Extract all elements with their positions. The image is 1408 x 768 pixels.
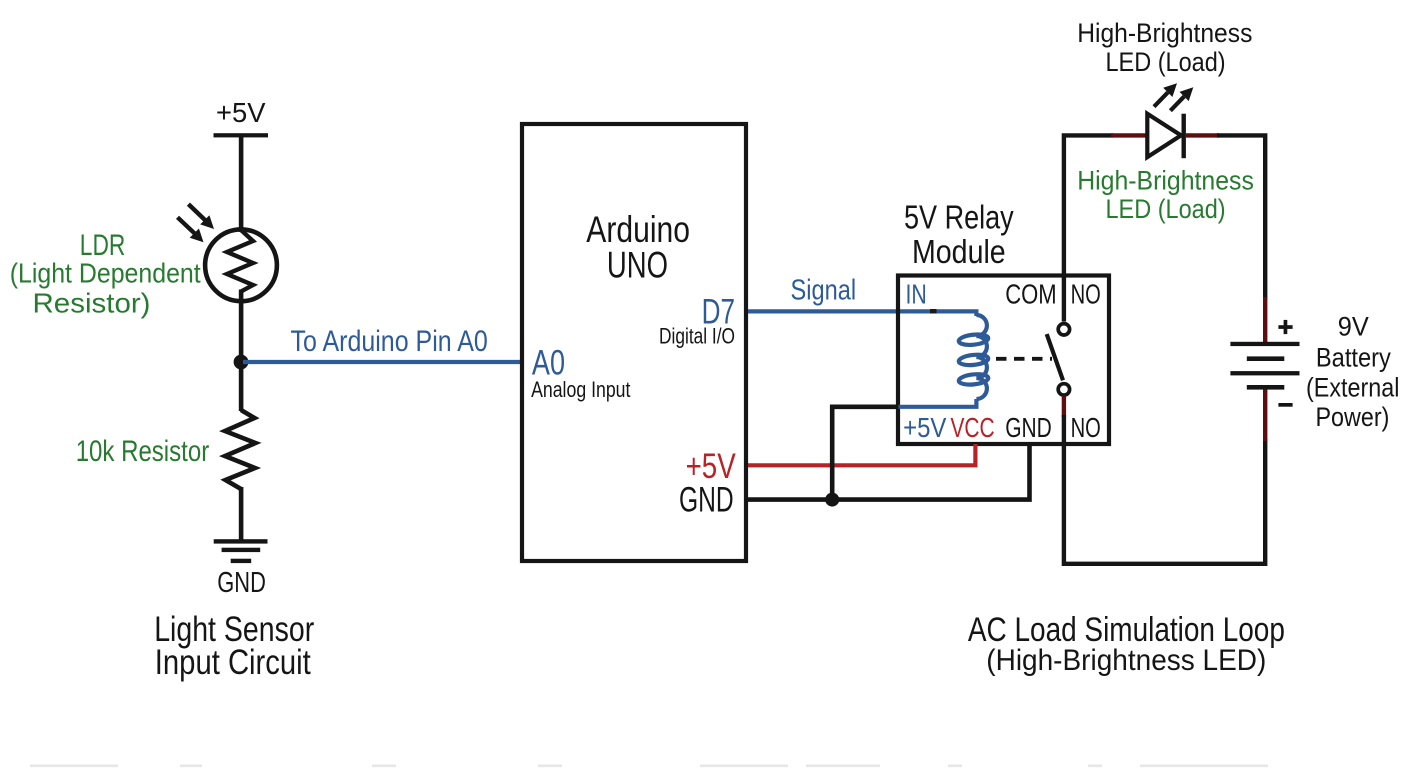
svg-text:Battery: Battery bbox=[1316, 343, 1391, 373]
label High-Brightness LED (Load) green bbox=[1077, 166, 1254, 224]
relay module box K1 bbox=[898, 276, 1109, 445]
svg-text:AC Load Simulation Loop: AC Load Simulation Loop bbox=[968, 611, 1285, 649]
battery + mark bbox=[1278, 320, 1292, 334]
wire to Arduino pin A0 (blue) bbox=[243, 360, 521, 364]
red wire VCC to +5V bbox=[748, 444, 975, 465]
svg-text:LED (Load): LED (Load) bbox=[1106, 194, 1226, 224]
maroon segment above battery bbox=[1263, 297, 1267, 342]
svg-text:(External: (External bbox=[1306, 373, 1399, 403]
svg-text:GND: GND bbox=[217, 567, 266, 599]
svg-text:Input Circuit: Input Circuit bbox=[155, 643, 311, 682]
label Arduino UNO bbox=[586, 209, 690, 286]
junction node A0 tap bbox=[234, 355, 249, 370]
LDR zigzag bbox=[227, 230, 253, 292]
svg-text:Digital I/O: Digital I/O bbox=[659, 324, 735, 349]
wire +5V to LDR bbox=[239, 135, 244, 232]
svg-text:COM: COM bbox=[1005, 279, 1056, 310]
maroon segment LED right bbox=[1186, 133, 1219, 137]
title Light Sensor Input Circuit bbox=[154, 610, 314, 682]
svg-text:UNO: UNO bbox=[607, 244, 668, 285]
svg-text:NO: NO bbox=[1071, 279, 1101, 310]
svg-text:NO: NO bbox=[1071, 412, 1101, 443]
wire D7 signal (blue) bbox=[748, 311, 976, 316]
LED emission arrow 1 bbox=[1154, 83, 1177, 107]
wire resistor to ground bbox=[239, 487, 244, 543]
faint cut-off caption at bottom bbox=[30, 765, 1268, 768]
tick on signal wire bbox=[930, 309, 937, 314]
svg-text:To Arduino Pin A0: To Arduino Pin A0 bbox=[291, 325, 488, 358]
LDR R1 circle bbox=[205, 229, 277, 301]
label High-Brightness LED (Load) black bbox=[1077, 18, 1252, 77]
title 5V Relay Module bbox=[904, 199, 1014, 271]
svg-text:LED (Load): LED (Load) bbox=[1106, 47, 1226, 77]
wire LED to battery top bbox=[1217, 135, 1265, 299]
svg-text:VCC: VCC bbox=[951, 412, 995, 443]
wire junction up to relay +5V bbox=[832, 407, 898, 500]
wire LDR to junction and resistor bbox=[239, 290, 244, 412]
relay coil L1 (blue) bbox=[899, 315, 989, 407]
svg-text:Signal: Signal bbox=[791, 274, 857, 306]
svg-text:Power): Power) bbox=[1316, 402, 1390, 432]
svg-text:9V: 9V bbox=[1338, 312, 1369, 342]
svg-text:IN: IN bbox=[906, 279, 927, 310]
switch arm bbox=[1047, 334, 1063, 380]
LED emission arrow 2 bbox=[1170, 87, 1193, 110]
label 9V Battery (External Power) bbox=[1306, 312, 1399, 432]
svg-text:Analog Input: Analog Input bbox=[531, 377, 630, 402]
LED cathode bar bbox=[1182, 114, 1186, 159]
svg-text:Resistor): Resistor) bbox=[33, 288, 151, 319]
svg-text:+5V: +5V bbox=[216, 97, 266, 128]
maroon segment LED left bbox=[1111, 133, 1147, 137]
resistor R2 10k zigzag bbox=[225, 410, 256, 489]
Arduino UNO box U1 bbox=[522, 124, 746, 561]
svg-text:(Light Dependent: (Light Dependent bbox=[10, 258, 201, 289]
junction GND dot bbox=[825, 493, 839, 507]
svg-text:High-Brightness: High-Brightness bbox=[1077, 18, 1252, 48]
+5V supply bar bbox=[214, 133, 269, 137]
svg-text:10k Resistor: 10k Resistor bbox=[76, 435, 210, 468]
svg-text:High-Brightness: High-Brightness bbox=[1077, 166, 1254, 196]
contact NO circle bbox=[1058, 384, 1069, 395]
light arrow 1 bbox=[188, 204, 214, 229]
maroon segment below battery bbox=[1263, 390, 1267, 442]
ground symbol bbox=[214, 539, 268, 563]
light arrow 2 bbox=[178, 217, 204, 242]
battery BT1 plates bbox=[1230, 342, 1299, 390]
battery - mark bbox=[1278, 403, 1292, 407]
contact COM circle bbox=[1058, 324, 1069, 335]
wire LED loop left + into relay bbox=[1064, 135, 1113, 321]
title AC Load Simulation Loop bbox=[968, 611, 1285, 677]
svg-text:(High-Brightness LED): (High-Brightness LED) bbox=[986, 644, 1266, 677]
svg-text:GND: GND bbox=[1005, 412, 1052, 443]
maroon segment below NO contact bbox=[1062, 396, 1066, 418]
svg-text:+5V: +5V bbox=[903, 412, 947, 443]
dashed actuator link bbox=[996, 357, 1052, 361]
black wire GND bus bbox=[748, 444, 1030, 500]
wire NO to battery bottom bbox=[1064, 415, 1265, 564]
svg-text:GND: GND bbox=[679, 480, 734, 519]
LED D1 triangle bbox=[1147, 114, 1181, 157]
svg-text:Module: Module bbox=[912, 234, 1006, 271]
svg-text:5V Relay: 5V Relay bbox=[904, 199, 1014, 236]
